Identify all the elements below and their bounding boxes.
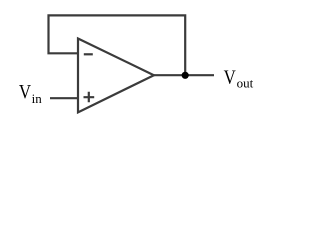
wire: op-amp output to Vout [154, 74, 214, 76]
wire: feedback from output node up, across top, down to inverting input [49, 15, 186, 75]
op-amp U1 [78, 39, 154, 113]
op-amp inverting input label (minus) [84, 53, 93, 55]
op-amp non-inverting input label (plus) [84, 92, 95, 102]
node: junction dot at output/feedback [182, 72, 189, 79]
svg-text:V: V [19, 81, 32, 103]
svg-text:in: in [32, 91, 43, 106]
svg-text:out: out [237, 76, 254, 91]
wire: Vin to non-inverting input [50, 97, 78, 99]
svg-text:V: V [224, 66, 237, 88]
